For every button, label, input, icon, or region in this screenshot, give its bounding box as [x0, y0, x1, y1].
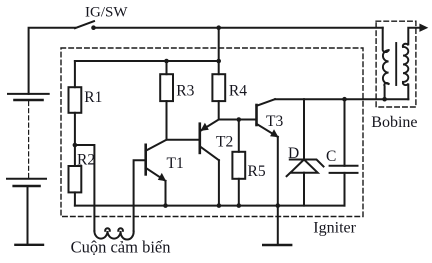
- output arrowhead: [419, 24, 428, 32]
- battery cell 1 long plate: [8, 93, 49, 95]
- wire: T2 collector to bus: [218, 160, 220, 205]
- wire: capacitor C top stub: [344, 99, 346, 166]
- wire: T3 emitter down to bus: [277, 137, 279, 206]
- bobine primary winding: [383, 50, 389, 84]
- wire: bobine secondary top stub to output: [403, 28, 421, 47]
- battery cell 1 short plate: [15, 99, 43, 102]
- wire: top rail from switch to bobine primary: [94, 27, 383, 29]
- battery cell 2 long plate: [7, 178, 46, 180]
- transistor T3 emitter arrowhead: [270, 129, 278, 137]
- node: rail/R4 junction: [216, 59, 221, 64]
- wire: pickup coil left lead: [75, 145, 95, 231]
- svg-text:Cuộn cảm biến: Cuộn cảm biến: [71, 237, 171, 256]
- switch IG/SW lever: [75, 21, 94, 28]
- wire: zener D bottom stub: [303, 173, 305, 206]
- transistor T1 emitter: [146, 168, 166, 181]
- resistor R3: [160, 74, 173, 101]
- wire: ground stem: [277, 206, 279, 245]
- bobine core: [395, 43, 397, 85]
- node: capacitor top junction: [342, 97, 347, 102]
- node: rail/R3 junction: [164, 59, 169, 64]
- svg-text:Bobine: Bobine: [371, 114, 417, 131]
- wire: R4 bottom to T3 base line: [219, 101, 256, 119]
- zener diode D triangle: [290, 160, 317, 173]
- zener diode D anode wing: [287, 173, 291, 177]
- wire: R1 bottom to R2 top: [74, 113, 76, 166]
- wire: inner top rail: [75, 60, 219, 62]
- ground bar: [263, 244, 291, 246]
- wire: capacitor C bottom stub: [344, 173, 346, 206]
- resistor R2: [69, 166, 82, 192]
- wire: T3 collector rail to bobine: [275, 98, 408, 100]
- wire: bobine secondary bottom stub: [403, 82, 408, 99]
- node: T1 emitter on bus: [163, 203, 168, 208]
- svg-text:T2: T2: [216, 134, 233, 151]
- capacitor C bottom plate: [330, 172, 358, 174]
- battery cell 2 short plate: [14, 185, 40, 188]
- wire: branch from top rail down to inner rail: [218, 28, 220, 61]
- wire: R1 top stub: [74, 61, 76, 87]
- wire: R3 top stub: [166, 61, 168, 74]
- wire: zener D top stub: [303, 99, 305, 159]
- svg-text:R3: R3: [176, 82, 194, 99]
- transistor T2 emitter arrowhead: [200, 123, 208, 131]
- igniter dashed box: [61, 48, 363, 217]
- pickup coil cusp 2: [118, 228, 123, 231]
- svg-text:R1: R1: [84, 89, 102, 106]
- transistor T1 collector: [146, 140, 167, 151]
- transistor T3 bar: [255, 105, 258, 125]
- svg-text:R5: R5: [248, 163, 266, 180]
- wire: bobine primary top stub: [383, 28, 389, 52]
- transistor T2 bar: [199, 124, 202, 153]
- ground bar under battery: [15, 244, 43, 246]
- resistor R4: [212, 74, 225, 101]
- transistor T1 bar: [144, 145, 147, 175]
- wire: ground bus: [75, 205, 345, 207]
- node: T3 emitter on bus: [276, 203, 281, 208]
- wire: bobine primary bottom stub: [384, 83, 388, 99]
- transistor T3 collector: [257, 99, 276, 106]
- wire: battery negative to ground: [27, 186, 29, 244]
- zener diode D cathode bar with wing: [290, 160, 324, 167]
- node: R5 top junction: [237, 117, 242, 122]
- bobine dashed box: [376, 21, 416, 107]
- pickup coil cusp 1: [105, 228, 110, 231]
- transistor T1 emitter arrowhead: [158, 173, 166, 181]
- transistor T2 emitter (arrow into bar): [201, 120, 219, 131]
- wire: R3 bottom to T1 collector / T2 base node: [167, 101, 200, 140]
- svg-text:Igniter: Igniter: [313, 219, 356, 236]
- wire: T1 emitter to bus: [165, 181, 167, 206]
- node: switch contact dot: [91, 25, 96, 30]
- svg-text:C: C: [326, 148, 336, 165]
- node: R1/R2/pickup junction: [73, 143, 78, 148]
- node: bobine primary bottom junction: [382, 97, 387, 102]
- svg-text:R4: R4: [229, 82, 247, 99]
- transistor T3 emitter: [257, 124, 278, 137]
- svg-text:T3: T3: [266, 113, 283, 130]
- resistor R5: [232, 152, 245, 179]
- wire: R2 bottom to ground bus: [74, 192, 76, 205]
- wire: R5 bottom to bus: [238, 179, 240, 206]
- battery dashed link: [28, 102, 30, 178]
- wire: pickup coil right lead to T1 base: [134, 160, 146, 231]
- resistor R1: [69, 87, 82, 113]
- node: T2 collector on bus: [217, 203, 222, 208]
- capacitor C top plate: [330, 165, 358, 167]
- wire: R4 top stub: [218, 61, 220, 74]
- node: R5 on bus: [237, 203, 242, 208]
- svg-text:T1: T1: [167, 155, 184, 172]
- transistor T2 collector: [200, 146, 219, 160]
- svg-text:R2: R2: [77, 152, 95, 169]
- node: top rail junction to R4 branch: [216, 25, 221, 30]
- wire: top rail from battery to switch: [29, 28, 75, 94]
- bobine secondary winding: [403, 47, 408, 82]
- svg-text:D: D: [288, 145, 299, 162]
- pickup coil Cuộn cảm biến: [94, 231, 133, 240]
- svg-text:IG/SW: IG/SW: [85, 5, 128, 21]
- wire: R5 top stub: [238, 120, 240, 152]
